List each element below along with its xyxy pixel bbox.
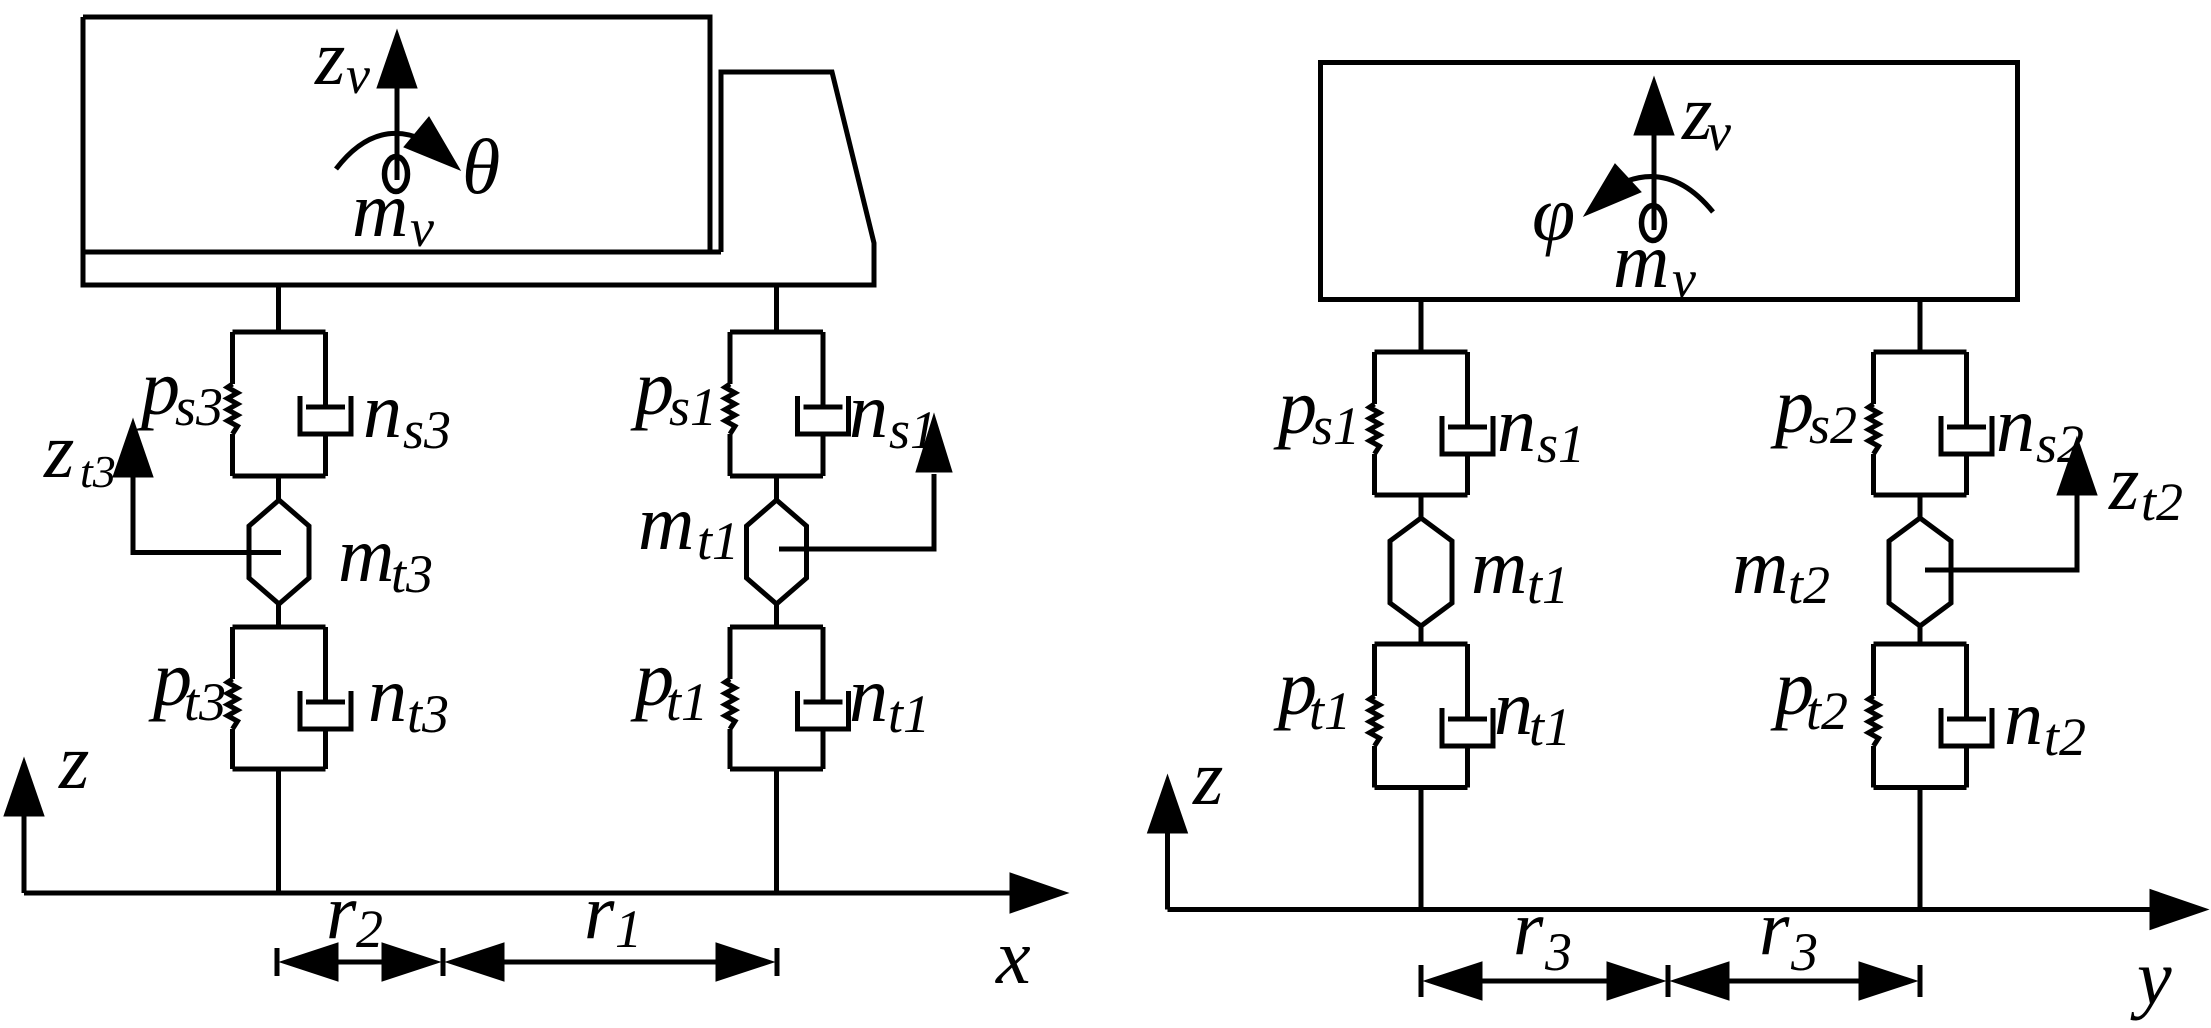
svg-text:n: n (1996, 381, 2035, 468)
svg-text:z: z (58, 718, 89, 805)
svg-text:t1: t1 (666, 672, 708, 732)
svg-text:t1: t1 (888, 684, 930, 744)
dimension r3 arrows (right span) (1671, 962, 1917, 1000)
wire: wheel mass to tire block (right fig left) (1419, 626, 1424, 644)
dimension ticks (right figure) (1421, 965, 1920, 997)
svg-text:s2: s2 (1809, 395, 1857, 455)
spring-damper block frame (p_s1 / n_s1) (730, 332, 823, 476)
z axis (left figure) (4, 758, 44, 893)
wire: z_t2 tap from wheel centre (1925, 491, 2077, 570)
svg-text:t2: t2 (1788, 555, 1830, 615)
svg-text:t2: t2 (2044, 707, 2086, 767)
svg-text:z: z (2108, 439, 2139, 526)
svg-text:2: 2 (356, 899, 383, 959)
vehicle body m_v (front view box) (1321, 63, 2018, 300)
z_t3 arrow head (113, 419, 153, 477)
wire: suspension to wheel mass m_t1 (774, 476, 779, 500)
svg-text:s1: s1 (669, 377, 717, 437)
svg-text:s1: s1 (1312, 396, 1360, 456)
svg-text:t1: t1 (1309, 681, 1351, 741)
svg-text:s3: s3 (403, 400, 451, 460)
svg-text:t2: t2 (2141, 472, 2183, 532)
svg-text:v: v (410, 198, 434, 258)
vehicle body m_v (truck side view) (83, 17, 874, 285)
svg-text:t1: t1 (1529, 697, 1571, 757)
wheel mass m_t1 (hexagon, right figure) (1390, 518, 1452, 626)
damper n_s2 (1941, 352, 1992, 495)
spring p_s3 (228, 384, 238, 434)
wheel mass m_t3 (hexagon) (249, 500, 309, 604)
svg-text:φ: φ (1532, 170, 1575, 257)
svg-text:z: z (43, 407, 74, 494)
z_t2 arrow head (2057, 437, 2097, 495)
wire: suspension to wheel mass m_t2 (1918, 495, 1923, 518)
svg-text:p: p (1770, 362, 1814, 449)
spring p_t2 (1869, 696, 1879, 746)
wire: body to right suspension (right figure) (1918, 298, 1923, 352)
spring-damper block frame (p_s3 / n_s3) (233, 332, 326, 476)
svg-text:t2: t2 (1806, 681, 1848, 741)
svg-text:t3: t3 (407, 684, 449, 744)
svg-text:t3: t3 (184, 672, 226, 732)
damper n_t1R (1442, 644, 1493, 788)
svg-text:s1: s1 (1537, 414, 1585, 474)
damper n_t3 (300, 627, 351, 769)
wire: wheel mass to tire block (front) (774, 604, 779, 627)
damper n_s1R (1442, 352, 1493, 495)
spring p_s1R (1370, 404, 1380, 454)
svg-text:n: n (368, 651, 407, 738)
svg-text:m: m (1613, 217, 1669, 304)
svg-text:m: m (638, 479, 694, 566)
svg-text:r: r (1759, 884, 1790, 971)
svg-text:1: 1 (615, 899, 642, 959)
spring-damper block frame (p_s1R / n_s1R) (1375, 352, 1468, 495)
svg-text:n: n (849, 367, 888, 454)
wire: z_t1 tap from wheel centre (779, 474, 934, 549)
wire: tire to ground (right fig right) (1918, 788, 1923, 910)
svg-text:v: v (1672, 249, 1696, 309)
svg-text:r: r (326, 868, 357, 955)
svg-text:3: 3 (1544, 922, 1572, 982)
svg-text:t3: t3 (80, 446, 116, 497)
svg-text:m: m (338, 511, 394, 598)
spring p_s1 (725, 384, 735, 434)
svg-text:p: p (136, 344, 180, 431)
wire: wheel mass to tire block (276, 604, 281, 627)
dimension ticks (left figure) (277, 948, 777, 976)
svg-text:m: m (352, 166, 408, 253)
svg-text:v: v (346, 45, 370, 105)
spring-damper block frame (p_t2 / n_t2) (1874, 644, 1967, 788)
damper n_s3 (300, 332, 351, 476)
svg-text:p: p (630, 344, 674, 431)
svg-text:v: v (1707, 102, 1731, 162)
svg-text:t1: t1 (1527, 555, 1569, 615)
svg-text:y: y (2130, 934, 2172, 1021)
spring-damper block frame (p_t1 / n_t1) (730, 627, 823, 769)
pivot circle (centre of mass, left) (385, 157, 408, 192)
wire: z_t3 tap from wheel centre (133, 474, 281, 553)
spring p_t1R (1370, 696, 1380, 746)
wire: body to left suspension (right figure) (1419, 298, 1424, 352)
pivot circle (centre of mass, right) (1642, 206, 1665, 241)
spring p_s2 (1869, 404, 1879, 454)
y axis (ground line, right figure) (1168, 890, 2209, 930)
spring-damper block frame (p_t3 / n_t3) (233, 627, 326, 769)
z axis (right figure) (1148, 775, 1188, 910)
spring p_t3 (228, 679, 238, 729)
wheel mass m_t1 (hexagon) (747, 500, 807, 604)
svg-text:n: n (1497, 381, 1536, 468)
svg-text:t3: t3 (391, 544, 433, 604)
svg-text:r: r (1513, 884, 1544, 971)
svg-text:x: x (995, 913, 1031, 1000)
wire: wheel mass to tire block (right fig right) (1918, 626, 1923, 644)
z_v arrow (right figure) (1634, 77, 1674, 230)
x axis (ground line) (24, 873, 1068, 913)
damper n_s1 (798, 332, 849, 476)
svg-text:n: n (849, 651, 888, 738)
z_t1 arrow head (916, 414, 952, 472)
svg-text:n: n (363, 367, 402, 454)
dimension r2 arrows (280, 943, 440, 981)
svg-text:z: z (314, 14, 345, 101)
wire: tire to ground (right fig left) (1419, 788, 1424, 910)
spring-damper block frame (p_t1R / n_t1R) (1375, 644, 1468, 788)
svg-text:n: n (2004, 674, 2043, 761)
svg-text:z: z (1192, 734, 1223, 821)
svg-text:θ: θ (462, 123, 500, 210)
svg-text:s3: s3 (175, 377, 223, 437)
dimension r1 arrows (446, 943, 774, 981)
svg-text:n: n (1494, 664, 1533, 751)
spring-damper block frame (p_s2 / n_s2) (1874, 352, 1967, 495)
wire: tire block to ground (front) (774, 769, 779, 893)
svg-text:p: p (1273, 363, 1317, 450)
wire: suspension to wheel mass (right fig left) (1419, 495, 1424, 518)
svg-text:t1: t1 (697, 511, 739, 571)
spring p_t1 (725, 679, 735, 729)
svg-text:r: r (584, 868, 615, 955)
dimension r3 arrows (left span) (1424, 962, 1665, 1000)
wheel mass m_t2 (hexagon) (1889, 518, 1951, 626)
z_v arrow (left figure) (377, 30, 417, 180)
wire: tire block to ground (rear) (276, 769, 281, 893)
roll rotation arc phi (1584, 164, 1713, 216)
damper n_t1 (798, 627, 849, 769)
wire: body to rear suspension (276, 285, 281, 332)
svg-text:m: m (1471, 523, 1527, 610)
pitch rotation arc theta (336, 117, 460, 170)
svg-text:m: m (1732, 523, 1788, 610)
damper n_t2 (1941, 644, 1992, 788)
wire: suspension to wheel mass m_t3 (276, 476, 281, 500)
svg-text:3: 3 (1790, 922, 1818, 982)
wire: body to front suspension (774, 285, 779, 332)
